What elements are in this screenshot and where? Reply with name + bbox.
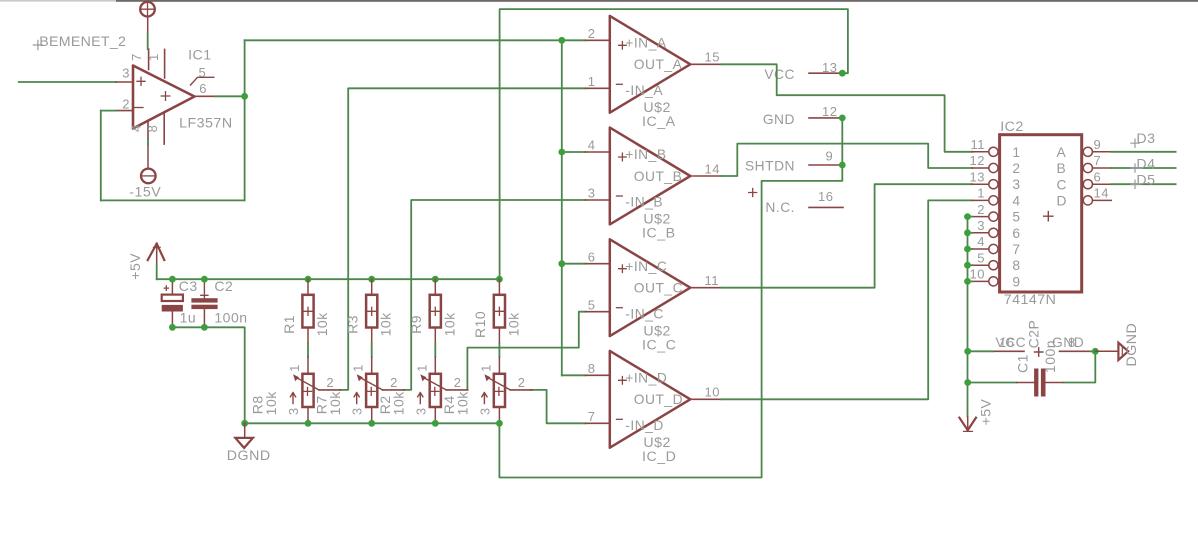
svg-text:2: 2 — [977, 202, 985, 217]
resistor R9 top lead — [434, 279, 436, 295]
label R1 — [281, 315, 297, 334]
label R9 — [408, 315, 424, 334]
pin name VCC — [764, 67, 795, 82]
svg-text:4: 4 — [977, 234, 985, 249]
label IC_A — [642, 114, 676, 130]
IC2 pin 5 (input 8) — [972, 261, 998, 270]
op-amp IC1 pin 7 (V+) — [148, 49, 150, 69]
+15V supply symbol P+ — [140, 2, 155, 33]
svg-text:8: 8 — [588, 361, 596, 376]
svg-text:D3: D3 — [1136, 131, 1155, 147]
wire R3 to R7 — [371, 344, 373, 358]
label R4 — [441, 395, 457, 414]
label IC1 — [188, 47, 212, 63]
pin number 1 (-IN_A) — [588, 74, 596, 89]
svg-text:10k: 10k — [327, 391, 343, 416]
pin name -IN_C — [625, 306, 664, 321]
IC2 pin 7 (output B) — [1083, 163, 1111, 172]
IC2 pin name D — [1057, 194, 1067, 209]
trimmer R4 wiper stub — [510, 389, 532, 391]
svg-text:D: D — [1057, 194, 1067, 209]
svg-text:9: 9 — [1012, 274, 1020, 289]
svg-text:DGND: DGND — [227, 448, 271, 464]
IC2 pin 14 (output D) — [1083, 196, 1111, 205]
svg-text:+5V: +5V — [127, 253, 143, 280]
resistor R1 body — [302, 295, 313, 328]
trimmer R8 pin 1 label — [287, 364, 302, 372]
trimmer R7 top stub — [371, 357, 373, 374]
wire R2 wiper to -IN_C — [467, 312, 585, 390]
capacitor C3 top lead — [171, 279, 173, 294]
svg-text:4: 4 — [1012, 193, 1020, 208]
IC2 pin number 14 — [1094, 186, 1109, 201]
svg-text:DGND: DGND — [1124, 323, 1140, 367]
svg-text:BEMENET_2: BEMENET_2 — [39, 34, 126, 50]
svg-text:6: 6 — [199, 81, 207, 96]
junction DGND rail at R7 — [368, 420, 375, 427]
trimmer R2 pin 1 label — [414, 364, 429, 372]
pin name +IN_B — [625, 147, 666, 162]
svg-text:13: 13 — [822, 60, 837, 75]
svg-text:10: 10 — [705, 385, 720, 400]
wire R8 wiper to -IN_A — [340, 88, 585, 390]
junction +5V rail at R1 — [305, 276, 312, 283]
trimmer R7 pin 3 label — [350, 407, 365, 415]
IC2 pin number 10 — [970, 267, 985, 282]
trimmer R4 pin 3 label — [477, 407, 492, 415]
capacitor C2 plates — [191, 298, 217, 309]
svg-text:10k: 10k — [378, 312, 394, 337]
U$2 pin GND stub — [809, 117, 843, 119]
junction +IN bus at +IN_B — [558, 149, 565, 156]
trimmer R8 body — [302, 374, 313, 407]
IC2 pin name 3 — [1012, 177, 1020, 192]
svg-text:LF357N: LF357N — [179, 115, 232, 131]
IC2 pin number 5 — [977, 250, 985, 265]
IC2 pin name A — [1057, 145, 1067, 160]
wire input net BEMENET_2 — [19, 81, 116, 83]
label R7 — [313, 395, 329, 414]
label C3 — [179, 278, 198, 294]
label R10 — [472, 311, 488, 338]
U$2 IC_C - marker — [617, 307, 623, 309]
trimmer R4 bottom lead — [498, 407, 500, 423]
op-amp IC1 pin 2 stub — [116, 110, 133, 112]
svg-text:C: C — [1057, 177, 1067, 192]
pin name -IN_A — [625, 83, 663, 98]
op-amp U$2 IC_C triangle — [610, 239, 691, 336]
pin name OUT_A — [634, 57, 683, 72]
label U$2 (C) — [643, 323, 671, 339]
pin number 8 — [145, 125, 160, 133]
svg-text:5: 5 — [199, 65, 207, 80]
U$2 pin N.C. stub — [809, 206, 843, 208]
svg-text:3: 3 — [477, 407, 492, 415]
resistor R10 top lead — [498, 279, 500, 295]
wire OUT_B to IC2 pin 12 — [721, 144, 972, 176]
wire chain stub row 5 — [968, 264, 973, 266]
U$2 IC_A -IN pin stub — [586, 87, 610, 89]
wire pin 4 to -15V — [147, 139, 149, 144]
label IC_C — [642, 337, 676, 353]
svg-text:7: 7 — [1012, 242, 1020, 257]
trimmer R7 pin 2 label — [390, 375, 398, 390]
U$2 pin VCC stub — [809, 72, 843, 74]
junction DGND rail at R8 — [305, 420, 312, 427]
svg-text:10: 10 — [970, 267, 985, 282]
svg-text:2: 2 — [390, 375, 398, 390]
wire OUT_D to IC2 pin 1 — [721, 200, 972, 399]
pin number 16 (IC2) — [999, 335, 1014, 350]
svg-text:N.C.: N.C. — [765, 200, 795, 215]
junction chain pin 2 — [964, 213, 971, 220]
IC2 pin name C — [1057, 177, 1067, 192]
svg-text:10k: 10k — [314, 312, 330, 337]
label R3 — [345, 315, 361, 334]
svg-text:R1: R1 — [281, 315, 297, 334]
IC2 pin 9 (output A) — [1083, 147, 1111, 156]
svg-text:OUT_B: OUT_B — [634, 169, 683, 184]
label R2 — [377, 395, 393, 414]
junction VCC16 — [964, 348, 971, 355]
pin number 14 (OUT_B) — [705, 161, 720, 176]
pin name GND (IC2) — [1052, 335, 1084, 350]
value 100n (C1) — [1042, 340, 1058, 373]
trimmer R8 wiper diagonal — [293, 374, 319, 390]
junction C1 left — [964, 379, 971, 386]
resistor R9 bottom stub — [434, 328, 436, 344]
trimmer R2 body — [430, 374, 441, 407]
U$2 IC_D - marker — [617, 418, 623, 420]
wire net D5 — [1111, 183, 1175, 185]
trimmer R4 body — [494, 374, 505, 407]
pin number 1 — [146, 53, 161, 61]
trimmer R8 wiper stub — [319, 389, 341, 391]
junction +IN bus at +IN_A — [558, 37, 565, 44]
svg-text:14: 14 — [1094, 186, 1109, 201]
svg-text:1: 1 — [146, 53, 161, 61]
IC2 pin 13 (input 3) — [972, 180, 998, 189]
junction GND8/DGND — [1092, 348, 1099, 355]
IC2 origin cross — [1044, 212, 1053, 221]
value 10k (R9) — [441, 312, 457, 337]
svg-text:10k: 10k — [441, 312, 457, 337]
wire C1 left — [968, 382, 1017, 384]
svg-text:6: 6 — [588, 249, 596, 264]
svg-text:3: 3 — [350, 407, 365, 415]
pin number 7 — [129, 53, 144, 61]
wire feedback to pin 2 — [101, 110, 116, 112]
value 100n — [214, 310, 247, 326]
junction +5V rail at R3 — [368, 276, 375, 283]
capacitor C1 leads — [1017, 382, 1064, 384]
IC2 pin number 4 — [977, 234, 985, 249]
IC2 pin 10 (input 9) — [972, 277, 998, 286]
value 10k (R3) — [378, 312, 394, 337]
svg-text:3: 3 — [1012, 177, 1020, 192]
junction GND pin 12 — [839, 115, 846, 122]
trimmer R2 adjust arrow — [418, 393, 423, 404]
IC2 pin number 6 — [1094, 169, 1102, 184]
svg-text:12: 12 — [822, 104, 837, 119]
IC2 pin number 12 — [970, 153, 985, 168]
resistor R9 body — [430, 295, 441, 328]
value 10k (R7) — [327, 391, 343, 416]
pin name -IN_B — [625, 195, 663, 210]
svg-text:7: 7 — [129, 53, 144, 61]
wire feedback vertical — [100, 111, 102, 201]
svg-text:C2P: C2P — [1026, 320, 1042, 349]
svg-text:1: 1 — [977, 186, 985, 201]
svg-text:D4: D4 — [1136, 157, 1155, 173]
capacitor C2 bottom lead — [203, 309, 205, 327]
junction DGND lead — [241, 420, 248, 427]
svg-text:OUT_C: OUT_C — [634, 281, 683, 296]
resistor R3 body — [366, 295, 377, 328]
IC2 pin 11 (input 1) — [972, 147, 998, 156]
svg-text:+5V: +5V — [978, 398, 994, 425]
label R8 — [250, 395, 266, 414]
label IC2 — [1000, 119, 1024, 135]
svg-text:D5: D5 — [1136, 173, 1155, 189]
wire DGND rail — [245, 422, 500, 424]
wire feedback bottom — [101, 199, 245, 201]
trimmer R4 pin 2 label — [518, 375, 526, 390]
svg-text:1: 1 — [414, 364, 429, 372]
svg-text:2: 2 — [454, 375, 462, 390]
junction IC1 output node — [241, 93, 248, 100]
pin number 5 (-IN_C) — [588, 297, 596, 312]
svg-text:6: 6 — [1012, 226, 1020, 241]
svg-text:12: 12 — [970, 153, 985, 168]
pin name OUT_B — [634, 169, 683, 184]
svg-text:-IN_B: -IN_B — [625, 195, 663, 210]
pin name GND — [763, 112, 795, 127]
U$2 IC_D OUT pin stub — [690, 398, 721, 400]
U$2 IC_A + marker — [619, 42, 627, 50]
pin number 12 — [822, 104, 837, 119]
svg-text:10k: 10k — [263, 391, 279, 416]
wire R10 to R4 — [498, 344, 500, 358]
IC2 pin name B — [1057, 161, 1067, 176]
label U$2 (A) — [643, 100, 671, 116]
junction chain pin 10 — [964, 278, 971, 285]
capacitor C3 plates — [162, 295, 183, 312]
svg-text:IC_D: IC_D — [642, 449, 676, 465]
svg-text:+IN_B: +IN_B — [625, 147, 666, 162]
pin number 6 — [199, 81, 207, 96]
resistor R3 bottom stub — [371, 328, 373, 344]
trimmer R7 pin 1 label — [351, 364, 366, 372]
IC2 pin number 3 — [977, 218, 985, 233]
svg-text:C2: C2 — [214, 278, 233, 294]
label IC_D — [642, 449, 676, 465]
svg-text:A: A — [1057, 145, 1067, 160]
IC2 pin name 4 — [1012, 193, 1020, 208]
wire R9 to R2 — [434, 344, 436, 358]
svg-text:1: 1 — [478, 364, 493, 372]
U$2 IC_D + marker — [619, 377, 627, 385]
trimmer R2 top stub — [434, 357, 436, 374]
capacitor C1 plates — [1034, 369, 1045, 397]
svg-text:2: 2 — [122, 96, 130, 111]
junction C2 bottom — [201, 324, 208, 331]
pin number 2 (+IN_A) — [588, 26, 596, 41]
svg-text:5: 5 — [1012, 210, 1020, 225]
label D4 — [1131, 157, 1156, 173]
pin number 7 (-IN_D) — [588, 409, 596, 424]
wire net D4 — [1111, 167, 1175, 169]
label 74147N — [1004, 292, 1057, 308]
svg-text:-IN_C: -IN_C — [625, 306, 664, 321]
svg-text:1: 1 — [287, 364, 302, 372]
value 10k (R4) — [455, 391, 471, 416]
svg-text:R10: R10 — [472, 311, 488, 338]
svg-text:1: 1 — [351, 364, 366, 372]
pin number 8 (IC2) — [1068, 335, 1076, 350]
U$2 IC_C +IN pin stub — [586, 263, 610, 265]
wire OUT_C to IC2 pin 13 — [721, 184, 972, 288]
svg-text:8: 8 — [1012, 258, 1020, 273]
pin number 5 — [199, 65, 207, 80]
resistor R10 bottom stub — [498, 328, 500, 344]
svg-text:IC2: IC2 — [1000, 119, 1024, 135]
trimmer R8 bottom lead — [307, 407, 309, 423]
IC2 pin 12 (input 2) — [972, 163, 998, 172]
IC2 pin name 9 — [1012, 274, 1020, 289]
window top edge (decor-free border) — [0, 0, 1198, 2]
svg-text:GND: GND — [763, 112, 795, 127]
svg-text:2: 2 — [518, 375, 526, 390]
svg-text:11: 11 — [705, 273, 720, 288]
pin number 3 — [122, 66, 130, 81]
pin number 2 — [122, 96, 130, 111]
wire VCC pin 13 to +5V rail — [500, 9, 848, 279]
wire chain stub row 4 — [968, 248, 973, 250]
svg-text:R9: R9 — [408, 315, 424, 334]
svg-text:8: 8 — [1068, 335, 1076, 350]
wire IC1 pin 6 output — [215, 95, 245, 97]
pin number 9 — [826, 149, 834, 164]
value 10k (R10) — [505, 312, 521, 337]
svg-text:8: 8 — [145, 125, 160, 133]
label +5V (right) — [978, 398, 994, 425]
value 10k (R1) — [314, 312, 330, 337]
op-amp IC1 - input marker — [135, 107, 144, 109]
junction chain pin 4 — [964, 246, 971, 253]
pin name +IN_D — [625, 371, 667, 386]
junction +IN bus at +IN_C — [558, 260, 565, 267]
label D3 — [1131, 131, 1156, 147]
wire chain stub row 10 — [968, 280, 973, 282]
IC2 pin number 13 — [970, 169, 985, 184]
label +5V (left) — [127, 253, 143, 280]
op-amp IC1 pin 3 stub — [116, 81, 133, 83]
svg-text:C1: C1 — [1014, 354, 1030, 373]
IC2 74147N body — [1000, 135, 1082, 292]
wire R1 to R8 — [307, 344, 309, 358]
U$2 IC_B OUT pin stub — [690, 175, 721, 177]
IC2 pin 6 (output C) — [1083, 180, 1111, 189]
svg-text:1: 1 — [588, 74, 596, 89]
junction SHTDN pin 9 — [839, 162, 846, 169]
trimmer R4 adjust arrow — [482, 393, 487, 404]
svg-text:4: 4 — [128, 124, 143, 132]
wire bus to +IN_C — [562, 263, 586, 265]
IC2 pin 1 (input 4) — [972, 196, 998, 205]
U$2 IC_B -IN pin stub — [586, 199, 610, 201]
IC2 pin VCC 16 stub — [993, 350, 1024, 352]
resistor R3 top lead — [371, 279, 373, 295]
wire C1 right to DGND — [1064, 351, 1096, 382]
pin number 8 (+IN_D) — [588, 361, 596, 376]
wire bus to +IN_D — [562, 374, 586, 376]
value 10k (R2) — [390, 391, 406, 416]
value 1u — [180, 310, 197, 326]
IC2 pin name 7 — [1012, 242, 1020, 257]
U$2 IC_A OUT pin stub — [690, 63, 721, 65]
wire net D3 — [1111, 151, 1175, 153]
svg-text:15: 15 — [705, 50, 720, 65]
pin number 10 (OUT_D) — [705, 385, 720, 400]
svg-text:3: 3 — [977, 218, 985, 233]
pin name +IN_A — [625, 36, 667, 51]
junction chain pin 3 — [964, 229, 971, 236]
wire +5V chain to VCC16 — [968, 350, 993, 352]
capacitor C3 polarity + — [164, 286, 168, 290]
wire caps to DGND rail — [172, 327, 244, 423]
wire R4 wiper to -IN_D — [531, 390, 586, 423]
label -15V — [129, 184, 161, 200]
pin number 11 (OUT_C) — [705, 273, 720, 288]
wire IC2 pins 2-10 chain to +5V — [967, 217, 969, 417]
label BEMENET_2 — [33, 34, 126, 50]
IC2 pin name 5 — [1012, 210, 1020, 225]
wire OUT_A to IC2 pin 11 — [721, 64, 972, 152]
svg-text:2: 2 — [1012, 161, 1020, 176]
svg-text:7: 7 — [1094, 153, 1102, 168]
svg-text:3: 3 — [286, 407, 301, 415]
capacitor C3 bottom lead — [171, 312, 173, 328]
IC2 pin number 1 — [977, 186, 985, 201]
capacitor C1 polarity + — [1035, 348, 1043, 356]
op-amp IC1 pin 5 (comp) — [191, 77, 214, 85]
svg-text:IC_C: IC_C — [642, 337, 676, 353]
U$2 pin SHTDN stub — [809, 164, 843, 166]
op-amp IC1 + input marker — [137, 77, 145, 85]
wire GND/SHTDN to DGND net — [499, 118, 842, 478]
-15V supply symbol — [141, 144, 156, 183]
ground DGND symbol (right) — [1095, 343, 1128, 360]
svg-text:9: 9 — [826, 149, 834, 164]
trimmer R7 body — [366, 374, 377, 407]
svg-text:1: 1 — [1012, 145, 1020, 160]
trimmer R7 wiper stub — [383, 389, 405, 391]
U$2 IC_C + marker — [619, 265, 627, 273]
wire +5V rail — [157, 278, 500, 280]
U$2 origin cross — [749, 189, 757, 197]
pin number 4 (+IN_B) — [588, 138, 596, 153]
svg-text:B: B — [1057, 161, 1067, 176]
IC2 pin 3 (input 6) — [972, 228, 998, 237]
U$2 IC_C -IN pin stub — [586, 311, 610, 313]
svg-text:+IN_D: +IN_D — [625, 371, 667, 386]
svg-text:74147N: 74147N — [1004, 292, 1057, 308]
svg-text:1u: 1u — [180, 310, 197, 326]
label C1 — [1014, 354, 1030, 373]
trimmer R2 bottom lead — [434, 407, 436, 423]
wire IC1 out to +IN_A — [245, 39, 586, 41]
